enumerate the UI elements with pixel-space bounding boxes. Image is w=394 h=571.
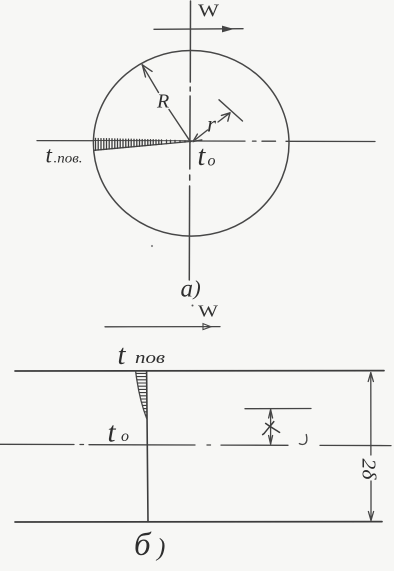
label t пов (bottom figure) [118,340,166,371]
vertical centerline of circle [189,1,190,280]
svg-text:пов: пов [135,348,165,367]
svg-text:o: o [208,153,216,170]
temperature profile wedge (top figure, hatched) [94,138,191,150]
stray hook mark on centerline [299,435,306,445]
svg-text:): ) [192,276,201,300]
svg-text:t: t [198,141,207,172]
circle: pipe cross-section [93,51,289,237]
W flow arrow (bottom figure) [105,324,220,330]
svg-text:R: R [156,91,169,113]
y double-headed arrow [269,410,273,445]
svg-text:.пов.: .пов. [54,151,83,166]
label y (handwritten) on arrow [263,422,280,435]
svg-text:2δ: 2δ [358,459,379,481]
temperature profile line (bottom figure) [147,371,148,522]
boundary-layer wedge (bottom figure, hatched) [136,371,147,419]
speck dot before W [192,305,194,307]
svg-text:б: б [134,527,152,563]
svg-text:): ) [155,535,165,562]
label t0 (bottom figure) [108,417,130,449]
top wall (bottom figure) [15,370,384,372]
radius arrow R [142,65,190,142]
W flow arrow (top figure) [154,26,243,33]
svg-text:t: t [108,417,117,449]
label t.пов (top figure) [46,143,83,168]
svg-text:r: r [207,112,217,137]
svg-text:W: W [198,1,219,21]
svg-text:t: t [46,143,53,168]
horizontal centerline (top figure) [37,140,375,143]
channel centerline (bottom figure) [0,444,391,445]
svg-text:а: а [181,276,194,303]
svg-text:W: W [198,302,219,321]
svg-text:t: t [118,340,127,371]
faint scan speck [151,245,153,247]
svg-text:o: o [121,428,129,445]
channel height dimension arrow 2δ [368,373,373,521]
bottom wall (bottom figure) [15,521,382,523]
label t0 (top figure) [198,141,216,172]
radius arrow r with end tick [193,100,243,142]
y-offset dimension line [245,408,311,410]
